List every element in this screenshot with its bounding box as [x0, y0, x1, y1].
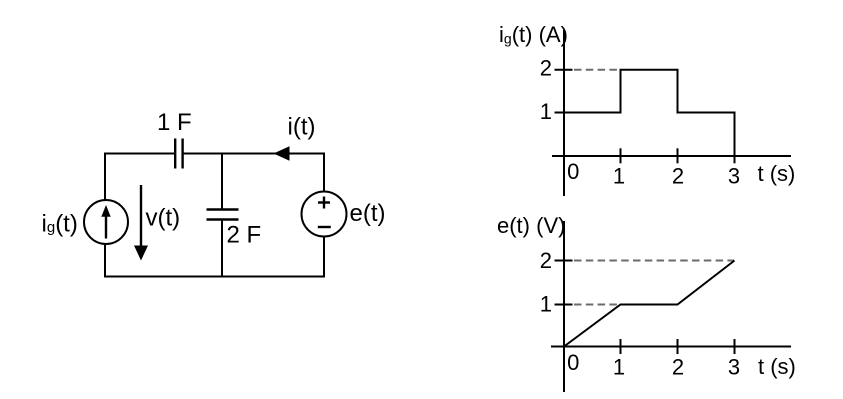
wire bottom [105, 276, 325, 278]
svg-text:2: 2 [672, 164, 684, 189]
graph2 label t3 [728, 355, 740, 380]
graph2 label 1 [540, 292, 552, 317]
svg-text:1: 1 [540, 99, 552, 124]
label 2 F [227, 222, 262, 249]
svg-text:3: 3 [728, 355, 740, 380]
graph1 label 1 [540, 99, 552, 124]
svg-text:0: 0 [567, 159, 579, 184]
graph2 axis label t (s) [758, 354, 796, 379]
arrow v(t) [134, 185, 148, 261]
svg-text:v(t): v(t) [146, 205, 181, 232]
graph2 y-tick 2 [555, 260, 573, 262]
wire right vertical upper [323, 153, 325, 193]
svg-text:1: 1 [613, 355, 625, 380]
current source ig(t) circle [84, 200, 128, 244]
graph1 x-axis [552, 155, 791, 157]
graph1 y-tick 2 [555, 69, 573, 71]
wire middle vertical lower [221, 220, 223, 277]
graph1 dashed level 2 [574, 69, 621, 71]
graph1 x-tick 1 [620, 148, 622, 163]
svg-text:2 F: 2 F [227, 222, 262, 249]
graph2 dashed level 2 [574, 260, 734, 262]
svg-text:0: 0 [567, 350, 579, 375]
wire left vertical upper [104, 153, 106, 201]
graph2 waveform e [564, 261, 735, 347]
svg-text:3: 3 [728, 164, 740, 189]
graph2 label t2 [672, 355, 684, 380]
label ig(t) [42, 211, 78, 238]
graph2 label 0 [567, 350, 579, 375]
graph1 label 2 [540, 56, 552, 81]
svg-text:t (s): t (s) [758, 354, 796, 379]
label v(t) [146, 205, 181, 232]
svg-text:t (s): t (s) [758, 161, 796, 186]
graph2 dashed level 1 [574, 304, 619, 306]
capacitor C2 2F plates [207, 210, 239, 220]
graph1 y-axis [563, 30, 565, 196]
arrow i(t) head [274, 146, 290, 161]
wire right vertical lower [323, 237, 325, 278]
svg-text:2: 2 [540, 248, 552, 273]
graph1 label t3 [728, 164, 740, 189]
svg-text:i(t): i(t) [288, 114, 316, 141]
graph2 label t1 [613, 355, 625, 380]
graph2 x-tick 3 [734, 339, 736, 354]
svg-text:1: 1 [540, 292, 552, 317]
graph2 title e(t) (V) [497, 213, 565, 238]
svg-text:e(t) (V): e(t) (V) [497, 213, 565, 238]
wire middle vertical upper [221, 154, 223, 210]
label 1 F [157, 109, 192, 136]
graph1 label 0 [567, 159, 579, 184]
voltage source e(t) circle [302, 192, 347, 237]
graph1 title ig(t) (A) [499, 22, 568, 47]
current source arrow [101, 205, 110, 239]
label i(t) [288, 114, 316, 141]
svg-text:1: 1 [613, 164, 625, 189]
graph2 x-axis [551, 346, 791, 348]
graph1 y-tick 1 [555, 112, 573, 114]
wire top-left segment [105, 153, 175, 155]
graph2 x-tick 2 [677, 339, 679, 354]
graph1 waveform ig [564, 70, 735, 161]
wire left vertical lower [104, 244, 106, 278]
graph2 label 2 [540, 248, 552, 273]
graph1 x-tick 2 [677, 148, 679, 163]
graph1 x-tick 3 [734, 148, 736, 163]
wire top-right segment [183, 153, 325, 155]
graph1 label t2 [672, 164, 684, 189]
label e(t) [350, 200, 386, 227]
graph2 y-tick 1 [555, 304, 573, 306]
capacitor C1 1F plates [175, 139, 182, 169]
graph1 axis label t (s) [758, 161, 796, 186]
graph2 x-tick 1 [620, 339, 622, 354]
svg-text:2: 2 [540, 56, 552, 81]
graph1 label t1 [613, 164, 625, 189]
svg-text:2: 2 [672, 355, 684, 380]
graph2 y-axis [563, 221, 565, 392]
voltage source plus sign [318, 197, 330, 209]
svg-text:1 F: 1 F [157, 109, 192, 136]
svg-text:e(t): e(t) [350, 200, 386, 227]
voltage source minus sign [318, 226, 331, 228]
